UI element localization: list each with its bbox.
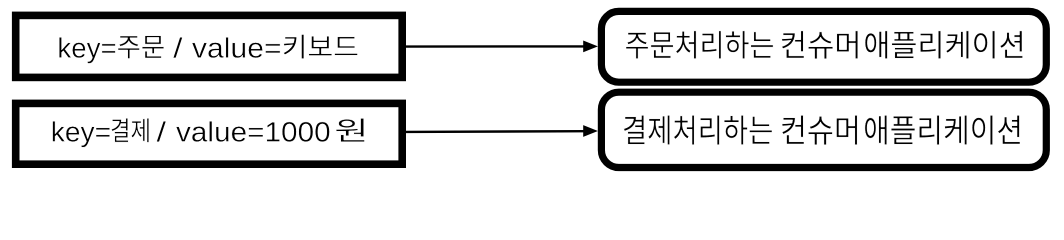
text T1 "value=": [192, 37, 280, 58]
text T3 "주문처리하는": [626, 31, 773, 59]
box producer record 2 (key=결제 / value=1000원): [16, 103, 403, 164]
arrow 1 head: [583, 41, 598, 53]
wire arrow 2 shaft: [406, 130, 585, 133]
rounded box consumer app 2: [601, 92, 1046, 167]
text T4 "결제처리하는": [624, 115, 772, 144]
box producer record 1 (key=주문 / value=키보드): [16, 15, 403, 77]
rounded box consumer app 1: [601, 11, 1046, 82]
text T4 "컨슈머": [782, 115, 857, 144]
text T2 "원": [336, 118, 365, 141]
text T4 "애플리케이션": [865, 115, 1020, 144]
text T3 "애플리케이션": [865, 31, 1023, 59]
text T1 "/": [173, 37, 182, 58]
text T2 "결제": [111, 118, 148, 142]
text T2 "/": [157, 121, 167, 142]
wire arrow 1 shaft: [406, 45, 585, 48]
text T1 "키보드": [284, 35, 358, 59]
text T3 "컨슈머": [782, 31, 858, 59]
text T2 "key=": [53, 121, 110, 147]
text T1 "주문" (Hangul paths): [118, 36, 164, 59]
text T1 "key=" (Liberation Sans): [59, 37, 115, 63]
text T2 "value=1000": [176, 121, 329, 142]
arrow 2 head: [583, 125, 598, 137]
